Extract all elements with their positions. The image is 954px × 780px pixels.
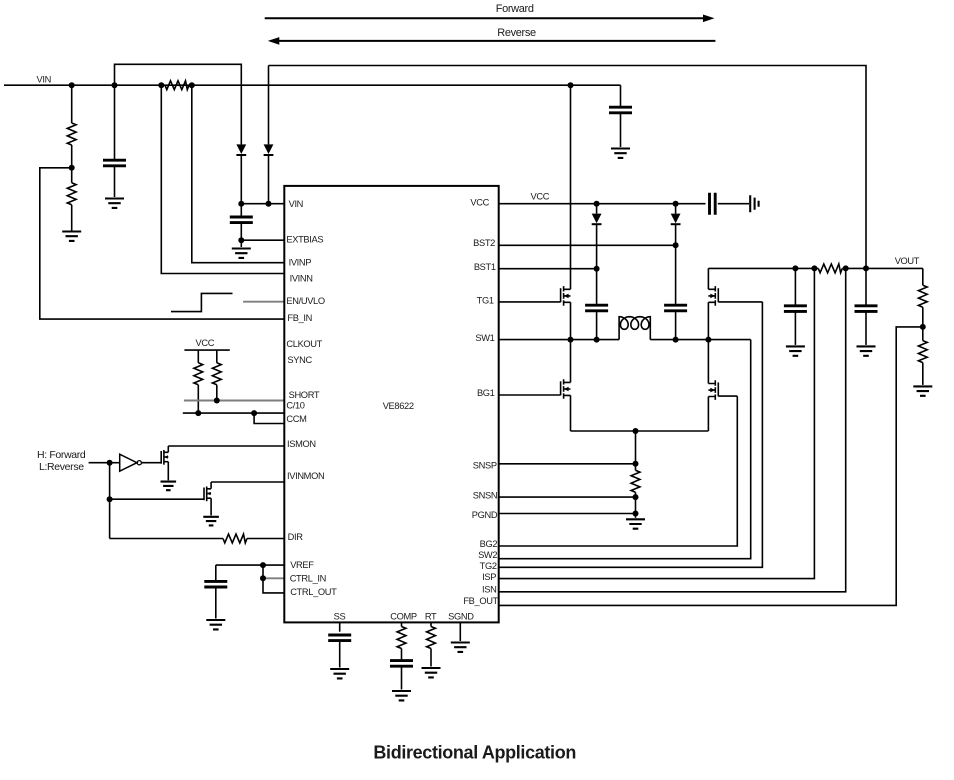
resistor output divider upper — [918, 268, 927, 327]
wire SW1 pin — [499, 339, 619, 341]
wire DIR pin — [110, 538, 223, 540]
svg-text:FB_IN: FB_IN — [287, 313, 312, 323]
wire VOUT line right — [842, 267, 923, 269]
capacitor bootstrap CB2 — [664, 245, 687, 339]
svg-text:CLKOUT: CLKOUT — [286, 339, 322, 349]
wire VIN rail — [4, 84, 621, 86]
svg-text:VCC: VCC — [470, 198, 489, 208]
wire FB_OUT pin — [499, 327, 923, 606]
wire DIR pin right — [247, 538, 284, 540]
wire SNSN pin — [499, 496, 636, 498]
resistor COMP — [397, 622, 406, 660]
node VIN-shuntR — [189, 82, 195, 88]
node BST1 — [594, 266, 600, 272]
svg-text:SHORT: SHORT — [289, 390, 320, 400]
diode D2 — [671, 204, 681, 246]
node Q6 gate tap — [107, 496, 113, 502]
svg-text:VREF: VREF — [290, 560, 314, 570]
capacitor SS — [328, 622, 351, 667]
svg-text:PGND: PGND — [472, 510, 498, 520]
wire SGND — [459, 622, 461, 641]
wire TG1 pin to Q1 gate — [499, 301, 561, 303]
node VIN-cap — [112, 82, 118, 88]
svg-text:Forward: Forward — [496, 3, 534, 15]
svg-text:VE8622: VE8622 — [383, 401, 414, 411]
capacitor VIN rail right — [609, 85, 632, 147]
ground RT — [422, 668, 441, 677]
node SNSP — [633, 461, 639, 467]
wire VIN pin — [241, 203, 284, 205]
node BST2 — [673, 242, 679, 248]
svg-text:ISMON: ISMON — [287, 439, 316, 449]
ground SGND — [451, 643, 470, 652]
node VOUT cap2 — [863, 265, 869, 271]
ground divider — [62, 232, 81, 241]
node source rail center — [633, 428, 639, 434]
svg-text:BST2: BST2 — [473, 238, 495, 248]
svg-text:VIN: VIN — [37, 75, 51, 85]
svg-text:SW2: SW2 — [478, 550, 497, 560]
svg-text:VCC: VCC — [196, 338, 215, 348]
svg-text:COMP: COMP — [390, 611, 417, 621]
svg-text:C/10: C/10 — [286, 401, 304, 411]
svg-text:FB_OUT: FB_OUT — [463, 596, 498, 606]
wire EXTBIAS pin — [241, 239, 284, 241]
wire TG2 pin — [499, 302, 763, 567]
node VIN pin D4 — [266, 201, 272, 207]
capacitor VREF — [204, 565, 227, 618]
wire ISN pin — [499, 268, 846, 591]
svg-text:VOUT: VOUT — [895, 256, 920, 266]
svg-text:VCC: VCC — [531, 192, 550, 202]
wire VCC cap to ground — [718, 203, 749, 205]
node VIN pin cap — [238, 201, 244, 207]
resistor divider lower — [67, 168, 76, 231]
wire SW2 pin — [499, 340, 751, 559]
svg-text:TG1: TG1 — [477, 296, 494, 306]
wire IVINP sense — [192, 85, 284, 263]
node VREF — [260, 562, 266, 568]
wire EN/UVLO pin stub — [243, 301, 284, 303]
wire ISP pin — [499, 268, 815, 578]
node C/10 CCM tie — [251, 410, 257, 416]
wire ISMON pin — [168, 445, 284, 447]
svg-text:BG1: BG1 — [477, 388, 495, 398]
node SNSN — [633, 494, 639, 500]
svg-text:H: Forward: H: Forward — [37, 449, 86, 461]
svg-text:CCM: CCM — [286, 414, 306, 424]
svg-text:SGND: SGND — [448, 611, 474, 621]
ground SS — [330, 669, 349, 678]
diode D4 — [264, 144, 274, 203]
svg-text:RT: RT — [425, 611, 437, 621]
wire BG1 pin to Q2 gate — [499, 394, 561, 396]
wire top rail to diode D4 — [268, 66, 270, 145]
node SW CB2 — [673, 337, 679, 343]
wire CTRL_IN pin — [263, 577, 284, 579]
diode D3 — [236, 144, 246, 203]
node VCC D1 — [594, 201, 600, 207]
svg-text:SNSN: SNSN — [473, 491, 497, 501]
wire PGND pin — [499, 513, 636, 515]
svg-text:IVINP: IVINP — [289, 258, 312, 268]
svg-text:SNSP: SNSP — [473, 461, 497, 471]
node EXTBIAS — [238, 237, 244, 243]
transistor Q1 high-side left — [561, 85, 571, 339]
node SW1 CB1 — [594, 337, 600, 343]
ground VIN rail right cap — [611, 149, 630, 158]
svg-text:IVINN: IVINN — [290, 274, 313, 284]
svg-text:ISP: ISP — [482, 572, 496, 582]
wire SHORT pin — [184, 400, 284, 402]
wire top loop to diode D3 — [115, 64, 242, 144]
transistor Q4 low-side right — [708, 340, 718, 431]
capacitor output C8 — [855, 268, 878, 345]
svg-text:IVINMON: IVINMON — [287, 471, 324, 481]
ground output divider — [913, 386, 932, 395]
EN/UVLO step waveform symbol — [171, 293, 233, 311]
wire FB_IN from divider tap — [40, 168, 284, 319]
ground COMP — [392, 691, 411, 700]
node CTRL_IN tie — [260, 575, 266, 581]
inverter buffer — [110, 454, 162, 471]
ground input bypass — [105, 199, 124, 208]
capacitor COMP — [390, 661, 413, 690]
svg-text:EN/UVLO: EN/UVLO — [286, 296, 324, 306]
ground EXTBIAS — [232, 240, 251, 258]
wire SW1 to SW2 node — [650, 339, 750, 341]
capacitor VCC series (horizontal) — [710, 193, 716, 215]
svg-text:L:Reverse: L:Reverse — [39, 461, 84, 473]
capacitor input bypass — [103, 85, 126, 197]
node VIN-Q1drain — [568, 82, 574, 88]
resistor VOUT series — [818, 264, 842, 273]
resistor sense — [631, 464, 640, 497]
svg-text:Bidirectional Application: Bidirectional Application — [373, 742, 576, 762]
ground PGND — [626, 514, 645, 529]
wire CCM pin — [254, 413, 284, 423]
wire SNSN to PGND — [635, 497, 637, 513]
node DIR input — [107, 460, 113, 466]
node SHORT pullup — [214, 398, 220, 404]
wire TG2 gate — [718, 301, 762, 303]
ground Q5 source — [161, 482, 177, 491]
transistor Q3 high-side right — [708, 268, 718, 339]
op-amp U1 VE8622 IC body — [284, 186, 498, 623]
resistor pullup to C/10 — [194, 350, 203, 413]
diode D1 — [592, 204, 602, 269]
transistor Q2 low-side left — [561, 340, 571, 431]
svg-text:SW1: SW1 — [475, 333, 494, 343]
wire VREF pin — [216, 564, 284, 566]
wire BG2 pin — [499, 396, 738, 546]
node ISP tap — [811, 265, 817, 271]
node VOUT cap1 — [792, 265, 798, 271]
wire DIR input stub — [89, 462, 110, 464]
node PGND — [633, 511, 639, 517]
reverse direction arrow — [268, 37, 716, 45]
resistor output divider lower — [918, 327, 927, 385]
wire IVINN sense — [161, 85, 284, 273]
wire BST2 pin — [499, 244, 676, 246]
inductor L1 — [619, 317, 650, 340]
resistor shunt on VIN rail — [165, 81, 189, 90]
node VIN-shuntL — [158, 82, 164, 88]
resistor pullup to SHORT — [212, 350, 221, 400]
svg-text:CTRL_IN: CTRL_IN — [290, 573, 326, 583]
wire rail to SNSP — [635, 431, 637, 464]
wire BST1 pin — [499, 268, 597, 270]
wire DIR bus vertical — [109, 463, 111, 539]
wire source rail — [571, 430, 709, 432]
svg-text:DIR: DIR — [288, 532, 304, 542]
capacitor bootstrap CB1 — [585, 269, 608, 340]
wire VOUT line — [708, 267, 818, 269]
capacitor VIN pin decoupling — [230, 204, 253, 241]
svg-text:EXTBIAS: EXTBIAS — [286, 235, 323, 245]
forward direction arrow — [265, 15, 715, 23]
svg-text:BST1: BST1 — [474, 262, 496, 272]
svg-text:SYNC: SYNC — [287, 355, 312, 365]
node output divider tap — [920, 324, 926, 330]
resistor DIR series — [223, 534, 247, 543]
wire SNSP pin — [499, 463, 636, 465]
node ISN tap — [843, 265, 849, 271]
node VIN-divider — [69, 82, 75, 88]
transistor Q5 ISMON — [161, 446, 168, 480]
wire BG2 gate — [718, 395, 737, 397]
resistor RT — [427, 622, 436, 666]
ground Q6 source — [203, 517, 219, 526]
node divider tap — [69, 165, 75, 171]
svg-text:VIN: VIN — [289, 199, 303, 209]
wire top rail to VOUT side — [269, 66, 867, 269]
wire Q6 gate — [110, 498, 204, 500]
ground output C8 — [857, 346, 876, 355]
transistor Q6 IVINMON — [204, 482, 211, 515]
wire VCC pin — [499, 203, 706, 205]
wire VREF to CTRL_IN CTRL_OUT — [263, 565, 284, 593]
ground VREF cap — [206, 620, 225, 629]
node SW Q3Q4 — [705, 337, 711, 343]
node SW1 Q1 — [568, 337, 574, 343]
node VCC D2 — [673, 201, 679, 207]
wire IVINMON pin — [211, 481, 284, 483]
svg-text:SS: SS — [334, 612, 346, 622]
svg-text:ISN: ISN — [482, 584, 496, 594]
capacitor output C7 — [784, 268, 807, 345]
wire C/10 pin — [183, 412, 284, 414]
ground output C7 — [786, 346, 805, 355]
node C/10 pullup — [195, 410, 201, 416]
svg-text:CTRL_OUT: CTRL_OUT — [290, 587, 337, 597]
VCC pullup rail bar — [184, 349, 229, 351]
svg-text:Reverse: Reverse — [497, 27, 536, 39]
ground VCC (rotated right) — [750, 195, 758, 212]
svg-text:TG2: TG2 — [480, 561, 497, 571]
resistor divider upper — [67, 85, 76, 168]
svg-text:BG2: BG2 — [480, 539, 498, 549]
